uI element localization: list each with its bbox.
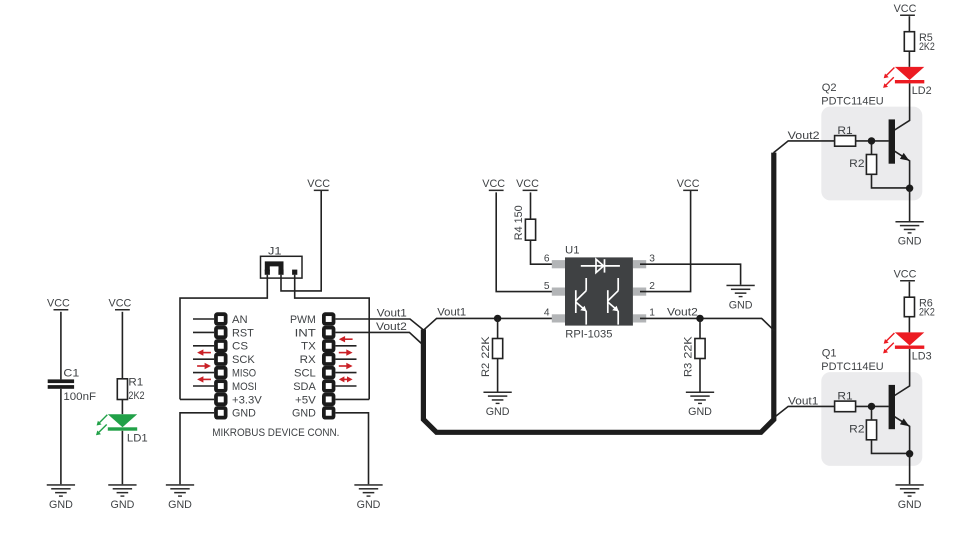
power flag VCC (U1 pin5) bbox=[482, 178, 505, 191]
wire SCL stub bbox=[335, 372, 356, 374]
wire R3 to ground bbox=[699, 359, 701, 392]
wire +5V row bbox=[335, 398, 369, 400]
ground (Q1) bbox=[895, 484, 923, 511]
svg-text:PWM: PWM bbox=[290, 314, 316, 326]
wire R5 to LD2 bbox=[908, 51, 910, 67]
jumper J1 bbox=[261, 246, 303, 279]
svg-text:Vout1: Vout1 bbox=[437, 307, 466, 319]
wire VCC to R5 bbox=[908, 16, 910, 32]
wire U1 pin2 to VCC bbox=[640, 191, 691, 292]
svg-text:R1: R1 bbox=[128, 377, 143, 389]
wire VCC to R6 bbox=[908, 282, 910, 298]
wire VCC to U1 pin5 bbox=[496, 192, 558, 291]
svg-text:2K2: 2K2 bbox=[919, 307, 935, 319]
wire junction to R3 bbox=[699, 318, 701, 338]
wire RST stub bbox=[193, 331, 214, 333]
node junction R3/Vout2 bbox=[696, 315, 703, 322]
power flag VCC (R1 branch) bbox=[109, 298, 132, 311]
svg-text:Vout2: Vout2 bbox=[376, 321, 407, 333]
svg-text:PDTC114EU: PDTC114EU bbox=[821, 95, 883, 107]
wire INT Vout2 bbox=[335, 332, 421, 343]
arrow CS/SCK left bbox=[197, 349, 211, 355]
wire LD3 to Q1 collector bbox=[895, 349, 910, 396]
wire U1 pin1 Vout2 to bus bbox=[640, 318, 774, 330]
U1 phototransistor right bbox=[608, 278, 619, 325]
power flag VCC (U1 pin2) bbox=[677, 178, 700, 191]
svg-text:C1: C1 bbox=[63, 367, 79, 379]
node junction R2/Vout1 bbox=[494, 315, 501, 322]
wire R2 to ground bbox=[497, 359, 499, 392]
arrow SCL/SDA double bbox=[339, 376, 353, 382]
ground (mikroBUS left) bbox=[166, 484, 194, 511]
arrow INT/TX left bbox=[339, 336, 353, 342]
transistor Q1 PDTC114EU block background bbox=[821, 372, 922, 466]
svg-text:Q2: Q2 bbox=[822, 82, 837, 94]
node junction Q1 base/R2 bbox=[868, 403, 875, 410]
svg-text:LD1: LD1 bbox=[127, 432, 148, 444]
wire bus to U1 pin4 Vout1 bbox=[423, 318, 558, 330]
svg-text:1: 1 bbox=[649, 308, 655, 319]
U1 internal LED diode bbox=[581, 259, 620, 272]
resistor R4 150 bbox=[513, 205, 536, 240]
svg-text:4: 4 bbox=[544, 308, 550, 319]
resistor R1 2K2 bbox=[117, 377, 144, 402]
svg-text:R2: R2 bbox=[849, 158, 864, 170]
svg-text:Vout1: Vout1 bbox=[788, 396, 818, 408]
ground (Q2) bbox=[895, 221, 923, 248]
wire R4 to U1 pin6 bbox=[531, 240, 559, 264]
svg-text:R1: R1 bbox=[837, 125, 852, 137]
resistor R2 (Q2) bbox=[849, 144, 909, 188]
wire PWM Vout1 bbox=[335, 319, 423, 330]
svg-text:RPI-1035: RPI-1035 bbox=[565, 329, 612, 341]
svg-text:100nF: 100nF bbox=[63, 391, 96, 403]
U1 phototransistor left bbox=[576, 278, 587, 325]
svg-text:R2: R2 bbox=[480, 363, 492, 377]
svg-text:MISO: MISO bbox=[232, 368, 256, 380]
power flag VCC (R5) bbox=[894, 3, 917, 16]
svg-text:SCK: SCK bbox=[232, 354, 255, 366]
wire SCK stub bbox=[193, 358, 214, 360]
wire bus to Q2 Vout2 bbox=[774, 141, 835, 153]
wire R1 to LD1 bbox=[121, 400, 123, 415]
ground (mikroBUS right) bbox=[354, 484, 382, 511]
capacitor C1 100nF bbox=[48, 367, 96, 403]
resistor R5 2K2 bbox=[904, 32, 935, 53]
power flag VCC (R6) bbox=[894, 269, 917, 282]
LED LD2 (red) bbox=[883, 67, 932, 97]
svg-text:6: 6 bbox=[544, 254, 550, 265]
svg-text:22K: 22K bbox=[682, 336, 694, 359]
wire R6 to LD3 bbox=[908, 317, 910, 333]
svg-text:2K2: 2K2 bbox=[128, 390, 144, 402]
ground (LD1) bbox=[108, 484, 136, 511]
resistor R1 (Q2 base) bbox=[835, 125, 856, 146]
svg-text:+3.3V: +3.3V bbox=[232, 394, 262, 406]
node junction Q2 emitter bbox=[906, 185, 913, 192]
svg-text:INT: INT bbox=[295, 327, 316, 339]
power flag VCC (C1 branch) bbox=[47, 298, 70, 311]
wire junction to R2 bbox=[497, 318, 499, 338]
wire VCC to R1 bbox=[121, 312, 123, 379]
wire VCC to R4 bbox=[530, 192, 532, 219]
transistor Q2 symbol bbox=[889, 119, 910, 188]
node junction Q1 emitter bbox=[906, 450, 913, 457]
resistor R3 22K bbox=[682, 336, 705, 377]
ground (R2) bbox=[483, 392, 511, 419]
wire J1 pin1 to +3.3V bbox=[180, 275, 267, 400]
svg-text:GND: GND bbox=[232, 408, 256, 420]
wire R1 to base (Q1) bbox=[856, 405, 889, 407]
header J1 mikroBUS left pins bbox=[214, 312, 227, 419]
svg-text:+5V: +5V bbox=[295, 394, 316, 406]
ground (C1) bbox=[47, 484, 75, 511]
wire U1 pin3 to ground bbox=[640, 264, 741, 285]
header J1 mikroBUS right pins bbox=[322, 312, 335, 419]
svg-text:2K2: 2K2 bbox=[919, 41, 935, 53]
svg-text:MIKROBUS DEVICE CONN.: MIKROBUS DEVICE CONN. bbox=[212, 427, 339, 439]
svg-text:22K: 22K bbox=[480, 336, 492, 359]
wire VCC to C1 bbox=[60, 312, 62, 380]
wire J1 pin3 to +5V bbox=[295, 275, 370, 400]
svg-text:LD2: LD2 bbox=[912, 85, 932, 97]
wire MISO stub bbox=[193, 372, 214, 374]
resistor R6 2K2 bbox=[904, 297, 935, 318]
wire Q2 emitter to ground bbox=[909, 188, 911, 221]
wire bus to Q1 Vout1 bbox=[774, 406, 835, 418]
wire GND row right bbox=[335, 413, 368, 484]
wire TX stub bbox=[335, 345, 356, 347]
wire CS stub bbox=[193, 345, 214, 347]
resistor R2 (Q1) bbox=[849, 410, 909, 454]
resistor R1 (Q1 base) bbox=[835, 391, 856, 412]
svg-text:SDA: SDA bbox=[293, 381, 316, 393]
svg-text:Q1: Q1 bbox=[822, 348, 837, 360]
svg-text:R3: R3 bbox=[682, 363, 694, 377]
wire R1 to base bbox=[856, 140, 889, 142]
wire RX stub bbox=[335, 358, 356, 360]
svg-text:PDTC114EU: PDTC114EU bbox=[821, 361, 883, 373]
ground (R3) bbox=[686, 392, 714, 419]
transistor Q1 symbol bbox=[889, 385, 910, 454]
optocoupler U1 RPI-1035 bbox=[544, 244, 655, 340]
pin labels left column bbox=[232, 314, 262, 420]
LED LD3 (red) bbox=[883, 332, 932, 362]
svg-text:2: 2 bbox=[649, 281, 655, 292]
LED LD1 (green) bbox=[96, 414, 148, 444]
arrow RX/SCL right bbox=[339, 363, 353, 369]
wire LD1 to ground bbox=[121, 431, 123, 484]
svg-text:Vout2: Vout2 bbox=[788, 130, 820, 142]
svg-text:MOSI: MOSI bbox=[232, 381, 257, 393]
wire GND row left bbox=[180, 413, 214, 484]
svg-text:LD3: LD3 bbox=[912, 350, 932, 362]
ground (U1 pin3) bbox=[726, 285, 754, 312]
wire C1 to ground bbox=[60, 389, 62, 484]
transistor Q2 PDTC114EU block background bbox=[821, 107, 922, 201]
arrow SCK/MISO right bbox=[197, 363, 211, 369]
svg-text:CS: CS bbox=[232, 341, 248, 353]
svg-text:3: 3 bbox=[649, 254, 655, 265]
node junction Q2 base/R2 bbox=[868, 137, 875, 144]
wire bus Vout1/Vout2 (thick) bbox=[423, 153, 773, 433]
svg-text:RX: RX bbox=[300, 354, 317, 366]
power flag VCC (R4) bbox=[516, 178, 539, 191]
svg-text:Vout1: Vout1 bbox=[377, 308, 407, 320]
svg-text:U1: U1 bbox=[565, 244, 580, 256]
svg-text:Vout2: Vout2 bbox=[667, 307, 698, 319]
wire AN stub bbox=[193, 318, 214, 320]
svg-text:GND: GND bbox=[292, 408, 316, 420]
wire SDA stub bbox=[335, 385, 356, 387]
resistor R2 22K bbox=[480, 336, 503, 377]
wire LD2 to Q2 collector bbox=[895, 83, 910, 130]
pin labels right column bbox=[290, 314, 316, 420]
wire Q1 emitter to ground bbox=[909, 454, 911, 485]
svg-text:R1: R1 bbox=[837, 391, 852, 403]
svg-text:R4 150: R4 150 bbox=[513, 205, 525, 240]
svg-text:R2: R2 bbox=[849, 423, 864, 435]
arrow TX/RX right bbox=[339, 349, 353, 355]
wire J1 pin2 to VCC bbox=[281, 191, 321, 291]
svg-text:RST: RST bbox=[232, 327, 254, 339]
wire +3.3V row bbox=[180, 398, 214, 400]
power flag VCC (J1) bbox=[307, 178, 330, 191]
wire MOSI stub bbox=[193, 385, 214, 387]
arrow MISO/MOSI left bbox=[197, 376, 211, 382]
svg-text:5: 5 bbox=[544, 281, 550, 292]
svg-text:SCL: SCL bbox=[294, 368, 316, 380]
svg-text:TX: TX bbox=[301, 341, 316, 353]
svg-text:AN: AN bbox=[232, 314, 248, 326]
